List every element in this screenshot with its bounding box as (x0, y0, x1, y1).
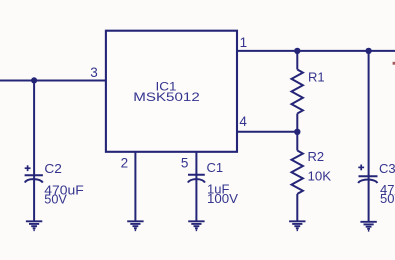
svg-text:100V: 100V (207, 191, 238, 206)
wire: node D to R2 (296, 132, 298, 151)
wire: pin 3 input rail (0, 80, 106, 82)
resistor R2 (292, 151, 303, 194)
wire: pin 5 to C1 (195, 152, 197, 176)
wire: C2 to ground (33, 174, 35, 221)
wire: R2 to ground (296, 194, 298, 221)
svg-text:10K: 10K (308, 169, 332, 184)
wire: C3 branch down (368, 51, 370, 175)
ground (C2) (26, 221, 42, 230)
capacitor C3 polarity plus (358, 165, 364, 171)
svg-text:C2: C2 (44, 161, 62, 176)
capacitor C2 top plate (25, 174, 43, 176)
ground (C1 / pin 5) (188, 221, 204, 230)
capacitor C2 polarity plus (25, 165, 31, 171)
svg-text:4: 4 (239, 114, 247, 129)
svg-text:MSK5012: MSK5012 (133, 92, 200, 104)
node C junction dot (C3 top) (365, 48, 371, 54)
ground (R2) (289, 221, 305, 230)
wire: C2 branch down (33, 81, 35, 176)
wire: pin 1 output rail (237, 50, 395, 52)
svg-text:3: 3 (90, 65, 98, 80)
svg-text:5: 5 (181, 156, 189, 171)
svg-text:C1: C1 (207, 160, 224, 175)
capacitor C3 top plate (359, 175, 378, 177)
ground (pin 2) (127, 221, 143, 230)
node B junction dot (R1 top) (294, 48, 300, 54)
svg-text:R1: R1 (308, 70, 325, 85)
svg-text:C3: C3 (379, 161, 395, 176)
capacitor C1 top plate (188, 174, 205, 176)
capacitor C3 curved plate (358, 180, 377, 183)
svg-text:50V: 50V (44, 191, 67, 206)
svg-text:1: 1 (240, 35, 248, 50)
wire: R1 to node D (296, 114, 298, 132)
IC1 MSK5012 regulator box (106, 31, 237, 152)
svg-text:2: 2 (121, 156, 129, 171)
svg-text:R2: R2 (308, 149, 325, 164)
svg-text:50V: 50V (380, 191, 395, 206)
red output marker (clipped plus at right edge) (393, 62, 395, 65)
wire: C1 to ground (195, 174, 197, 222)
wire: rail to R1 (296, 51, 298, 70)
capacitor C1 curved plate (188, 179, 205, 182)
resistor R1 (292, 70, 303, 114)
wire: C3 to ground (368, 175, 370, 222)
ground (C3) (360, 222, 376, 231)
wire: pin 2 to ground (134, 152, 136, 221)
node D junction dot (R1/R2 divider) (294, 129, 300, 135)
node A junction dot (31, 77, 37, 83)
capacitor C2 curved plate (25, 179, 43, 182)
wire: pin 4 to node D (237, 131, 297, 133)
